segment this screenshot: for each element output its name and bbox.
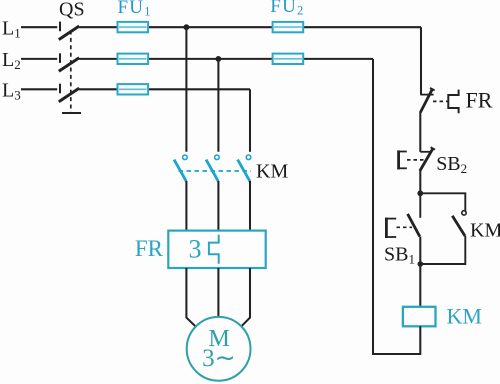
FR release bracket symbol <box>448 90 458 114</box>
svg-text:FR: FR <box>466 88 493 113</box>
wire right branch top <box>420 27 422 94</box>
wire to motor 3 <box>242 268 251 326</box>
svg-text:KM: KM <box>256 161 288 183</box>
svg-text:3∼: 3∼ <box>202 345 235 372</box>
fuse FU2 lower <box>273 54 304 64</box>
KM main linkage dashed <box>179 170 252 172</box>
KM auxiliary contact branch <box>420 193 466 264</box>
wire phase drop 2 <box>217 59 219 152</box>
QS linkage dashed <box>62 31 81 114</box>
SB1 dashed link <box>397 226 413 228</box>
wire L2 rail <box>21 58 373 60</box>
switch QS pole 3 <box>59 84 79 102</box>
fuse FU1 pole 2 <box>118 54 149 64</box>
pushbutton SB2 (NC stop) <box>397 147 435 171</box>
wire L1 rail <box>21 26 421 28</box>
switch QS pole 1 <box>59 22 79 40</box>
wire FR to SB2 <box>419 112 421 152</box>
pushbutton SB1 (NO start) <box>385 193 420 238</box>
contactor KM main contact 2 <box>206 155 219 181</box>
FR heater element symbol <box>209 235 219 264</box>
fuse FU1 pole 3 <box>118 84 149 94</box>
node dot above SB1 <box>417 190 423 196</box>
wire below contact 1 <box>185 181 187 231</box>
wire to motor 2 <box>217 268 219 317</box>
svg-text:FU2: FU2 <box>270 0 304 18</box>
svg-text:FR: FR <box>135 236 164 261</box>
wire phase drop 3 <box>249 89 251 152</box>
node dot below SB1 <box>418 261 424 267</box>
wire phase drop 1 <box>185 27 187 152</box>
SB2 dashed link <box>407 159 424 161</box>
wire coil to bottom return <box>373 59 420 354</box>
thermal relay FR NC contact <box>420 88 434 112</box>
motor M circle <box>187 317 251 381</box>
wire SB1 to node <box>419 237 421 264</box>
svg-text:KM: KM <box>447 304 482 329</box>
node L1 junction dot <box>184 24 190 30</box>
wire node to coil <box>419 264 421 307</box>
node L2 junction dot <box>216 56 222 62</box>
FR contact dashed link <box>433 100 448 102</box>
fuse FU1 pole 1 <box>118 22 149 32</box>
coil KM <box>403 307 436 327</box>
switch QS pole 2 <box>59 53 79 71</box>
wire SB2 to node <box>419 171 421 193</box>
contactor KM main contact 1 <box>174 155 187 181</box>
fuse FU2 upper <box>273 22 304 32</box>
wire below contact 3 <box>249 181 251 231</box>
wire to motor 1 <box>186 268 195 326</box>
thermal relay FR heater box <box>168 231 265 268</box>
svg-text:3: 3 <box>189 235 202 264</box>
wire below contact 2 <box>217 181 219 231</box>
svg-text:QS: QS <box>59 0 85 21</box>
contactor KM main contact 3 <box>238 155 251 181</box>
svg-text:KM: KM <box>470 220 500 242</box>
wire L3 rail <box>21 88 250 90</box>
